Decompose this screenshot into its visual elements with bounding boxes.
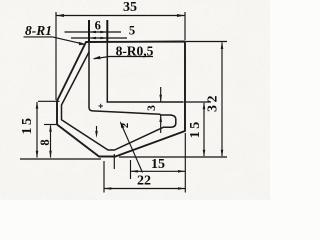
left 8 dim + ext	[50, 126, 52, 158]
bottom face right extension	[119, 156, 227, 158]
5 arrows	[89, 37, 96, 39]
svg-text:8: 8	[38, 139, 52, 145]
svg-text:5: 5	[129, 24, 135, 38]
32 dim line	[221, 43, 223, 157]
8-R1 leader	[24, 37, 85, 44]
svg-text:15: 15	[20, 116, 35, 135]
svg-text:32: 32	[206, 93, 221, 112]
small down arrow line	[96, 126, 98, 132]
bottom-left extension	[20, 158, 101, 160]
3 arrows	[159, 95, 162, 102]
6/5 extension lines	[88, 20, 90, 41]
35 extension lines	[55, 12, 57, 100]
8-R1 leader arrow	[79, 42, 87, 45]
8-R0,5 underline + leader	[94, 57, 153, 59]
svg-text:8-R1: 8-R1	[25, 23, 52, 38]
neck right wall	[106, 42, 108, 103]
circuit-free technical drawing: extruded rail profile section, 270x200	[0, 0, 270, 200]
6 arrows	[89, 31, 96, 33]
left 15 arrows	[36, 101, 39, 108]
dimension graphics	[20, 12, 227, 193]
outer contour of profile	[57, 42, 185, 157]
svg-text:3: 3	[146, 105, 158, 111]
upper step line	[107, 101, 183, 103]
svg-text:35: 35	[123, 0, 137, 15]
2 leader arrow	[120, 121, 125, 128]
35 arrows	[56, 14, 64, 17]
svg-text:15: 15	[188, 119, 203, 138]
left 8 arrows	[49, 125, 52, 132]
32 arrows	[221, 42, 224, 50]
dimension texts	[20, 0, 221, 189]
svg-text:6: 6	[95, 19, 101, 33]
tongue / hook	[62, 52, 176, 150]
3 dimension lines	[160, 87, 162, 133]
bottom 15 dim + ext tick	[131, 170, 186, 172]
8-R0,5 leader arrow	[93, 56, 101, 59]
32 top extension	[186, 41, 227, 43]
right 15 arrows	[203, 102, 206, 109]
neck left wall and cavity floor	[89, 42, 160, 115]
svg-text:8-R0,5: 8-R0,5	[116, 43, 154, 58]
arrowheads	[36, 14, 224, 190]
small plus artifact mark	[99, 104, 104, 108]
left 15 dim + ext	[36, 102, 38, 158]
5 dimension line	[71, 37, 127, 39]
svg-text:15: 15	[151, 157, 165, 172]
svg-text:2: 2	[119, 122, 131, 128]
6 dimension line	[65, 31, 122, 33]
bottom 22 dim + exts	[104, 188, 185, 190]
2 leader	[121, 123, 143, 173]
35 dimension line	[56, 15, 185, 17]
bottom 22 arrows	[104, 187, 111, 190]
bottom 15 arrows	[131, 170, 138, 173]
small down arrow	[95, 131, 98, 138]
svg-text:22: 22	[137, 174, 151, 189]
right 15 extension + dim	[186, 101, 211, 103]
